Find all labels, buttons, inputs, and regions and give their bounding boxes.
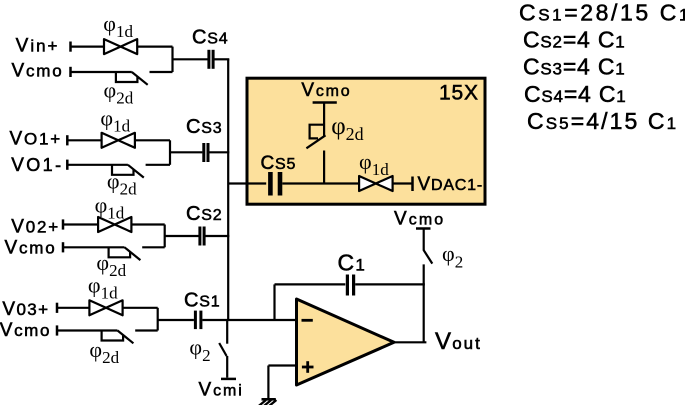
wire junction branch2 bbox=[169, 140, 171, 165]
node VO1- bbox=[11, 155, 67, 176]
wire bbox=[226, 356, 228, 378]
svg-text:V02+: V02+ bbox=[11, 217, 60, 238]
wire bbox=[63, 223, 98, 225]
capacitor Cs4 bbox=[192, 27, 228, 69]
wire bbox=[142, 246, 165, 248]
summing bus bbox=[227, 59, 229, 320]
node Vcmi bbox=[199, 379, 244, 401]
wire bbox=[393, 182, 413, 184]
wire bbox=[355, 283, 425, 285]
svg-text:CS1: CS1 bbox=[184, 289, 220, 311]
wire bbox=[323, 151, 325, 184]
wire junction branch1 bbox=[171, 47, 173, 72]
wire bbox=[323, 103, 325, 137]
wire bbox=[57, 329, 118, 331]
wire bbox=[63, 246, 125, 248]
wire bbox=[67, 139, 101, 141]
wire feedback top bbox=[275, 283, 346, 285]
wire bbox=[210, 151, 230, 153]
node Vcmo below box bbox=[394, 209, 445, 230]
svg-text:CS2=4 C1: CS2=4 C1 bbox=[523, 27, 626, 53]
node Vcmo branch4 bbox=[0, 320, 57, 341]
svg-text:Vcmo: Vcmo bbox=[4, 238, 56, 259]
wire bbox=[137, 45, 172, 47]
switch phi2d branch4 bbox=[89, 331, 133, 367]
node Vcmo branch3 bbox=[4, 238, 63, 259]
node V02+ bbox=[11, 217, 63, 238]
svg-text:Vin+: Vin+ bbox=[16, 35, 60, 56]
wire junction branch3 bbox=[164, 225, 166, 248]
wire to op-amp inverting input bbox=[202, 319, 296, 321]
svg-text:Vcmo: Vcmo bbox=[301, 80, 351, 101]
svg-text:CS3: CS3 bbox=[186, 116, 222, 138]
wire bbox=[158, 319, 194, 321]
svg-text:15X: 15X bbox=[439, 82, 479, 105]
capacitor Cs3 bbox=[186, 116, 222, 162]
svg-text:CS4=4 C1: CS4=4 C1 bbox=[524, 81, 627, 107]
switch phi2d in box bbox=[306, 113, 363, 148]
svg-text:Vcmo: Vcmo bbox=[394, 209, 445, 230]
block 15X bbox=[247, 78, 485, 204]
wire junction branch4 bbox=[157, 308, 159, 331]
wire bbox=[423, 229, 425, 251]
node Vcmo in box bbox=[301, 80, 351, 103]
capacitor C1 bbox=[338, 250, 366, 296]
wire bbox=[423, 264, 425, 342]
wire bbox=[71, 71, 132, 73]
svg-text:VDAC1-: VDAC1- bbox=[418, 174, 484, 195]
wire bbox=[170, 151, 202, 153]
switch phi1d branch2 bbox=[100, 105, 134, 148]
wire from bus to Cs5 bbox=[228, 182, 266, 184]
switch phi2d branch3 bbox=[96, 247, 140, 280]
wire bbox=[282, 182, 359, 184]
svg-text:CS4: CS4 bbox=[192, 27, 228, 49]
node Vcmo branch1 bbox=[11, 61, 70, 82]
capacitor Cs5 bbox=[261, 153, 297, 196]
node V03+ bbox=[2, 299, 57, 320]
svg-text:VO1-: VO1- bbox=[11, 155, 63, 176]
switch phi2 (Vcmi) bbox=[189, 335, 226, 366]
switch phi1d in box bbox=[359, 149, 393, 191]
wire bbox=[215, 58, 230, 60]
switch phi2 (output) bbox=[424, 241, 464, 272]
op-amp U1 bbox=[297, 299, 395, 385]
wire bbox=[226, 320, 228, 344]
switch phi2d branch2 bbox=[107, 165, 144, 199]
switch phi2d branch1 bbox=[104, 72, 148, 108]
svg-text:V03+: V03+ bbox=[2, 299, 49, 320]
svg-text:VO1+: VO1+ bbox=[10, 129, 63, 150]
wire bbox=[165, 235, 199, 237]
wire bbox=[135, 329, 158, 331]
capacitor Cs1 bbox=[184, 289, 220, 329]
svg-text:Vcmo: Vcmo bbox=[0, 320, 51, 341]
wire bbox=[71, 45, 105, 47]
wire feedback left bbox=[273, 284, 275, 320]
wire bbox=[67, 164, 128, 166]
wire noninverting input bbox=[268, 364, 296, 366]
node Vin+ bbox=[16, 35, 71, 56]
switch phi1d branch4 bbox=[88, 273, 123, 316]
wire bbox=[206, 235, 230, 237]
ground bbox=[258, 399, 277, 405]
switch phi1d branch3 bbox=[95, 192, 132, 232]
svg-text:Vcmo: Vcmo bbox=[11, 61, 63, 82]
switch phi1d branch1 bbox=[103, 11, 137, 54]
wire bbox=[135, 139, 170, 141]
wire bbox=[123, 307, 158, 309]
svg-text:CS5: CS5 bbox=[261, 153, 297, 174]
wire bbox=[267, 366, 269, 400]
wire output bbox=[394, 341, 426, 343]
svg-text:CS2: CS2 bbox=[186, 203, 222, 225]
node VDAC1- bbox=[413, 174, 484, 195]
wire bbox=[146, 164, 170, 166]
wire bbox=[150, 71, 173, 73]
node VO1+ bbox=[10, 129, 68, 150]
wire bbox=[131, 223, 164, 225]
wire bbox=[57, 307, 89, 309]
capacitor Cs2 bbox=[186, 203, 222, 246]
svg-text:Vcmi: Vcmi bbox=[199, 380, 244, 401]
svg-text:CS3=4 C1: CS3=4 C1 bbox=[523, 54, 626, 80]
wire bbox=[173, 58, 208, 60]
